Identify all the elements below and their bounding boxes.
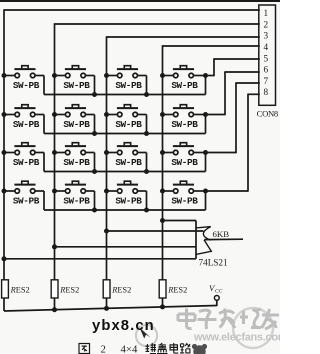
switch SW-PB S13 (row 4, col 1) <box>4 181 44 193</box>
svg-text:SW-PB: SW-PB <box>171 157 198 168</box>
wire row 1 col1 drop <box>43 76 45 95</box>
wire row 2 riser to row dot <box>205 115 207 134</box>
watermark text 电子发烧友 <box>178 309 195 329</box>
svg-text:2: 2 <box>101 344 106 354</box>
node: row 4 col 4 left-terminal junction <box>160 189 165 194</box>
wire row 2 to CON8 pin 6 <box>206 114 226 116</box>
resistor R3 RES2 body <box>103 280 110 298</box>
wire row 3 staircase horizontal <box>44 171 206 173</box>
wire column 2 to CON8 pin 2 <box>55 23 260 25</box>
resistor R4 bottom lead <box>162 298 164 307</box>
svg-text:RES2: RES2 <box>10 285 30 294</box>
resistor R1 bottom lead <box>3 298 5 311</box>
switch SW-PB S1 (row 1, col 1) <box>4 66 44 78</box>
switch SW-PB S11 (row 3, col 3) <box>107 143 147 155</box>
svg-text:SW-PB: SW-PB <box>115 157 142 168</box>
wire row 3 riser to row dot <box>205 153 207 172</box>
wire row 1 col2 drop <box>94 76 96 95</box>
resistor R2 RES2 body <box>51 280 58 298</box>
wire row 1 staircase horizontal <box>44 94 206 96</box>
wire column 4 to CON8 pin 4 <box>163 45 260 47</box>
node row 3 col2 staircase junction <box>92 169 97 174</box>
node row 1 right junction <box>203 73 208 78</box>
svg-text:SW-PB: SW-PB <box>63 157 90 168</box>
wire column 4 vertical <box>162 45 164 279</box>
node: row 2 col 4 left-terminal junction <box>160 112 165 117</box>
wire column 2 vertical <box>54 23 56 279</box>
node: row 1 col 4 left-terminal junction <box>160 73 165 78</box>
wire column 1 vertical <box>3 9 5 280</box>
switch SW-PB S10 (row 3, col 2) <box>55 143 95 155</box>
wire row 3 col2 drop <box>94 153 96 172</box>
svg-text:5: 5 <box>264 53 269 63</box>
switch SW-PB S8 (row 2, col 4) <box>163 105 206 117</box>
svg-text:SW-PB: SW-PB <box>115 196 142 207</box>
watermark stamp ring bottom-right <box>233 308 273 348</box>
svg-text:RES2: RES2 <box>167 285 187 294</box>
wire row 1 riser to row dot <box>205 76 207 95</box>
node: row 4 col 2 left-terminal junction <box>52 189 57 194</box>
node: row 3 col 3 left-terminal junction <box>104 150 109 155</box>
node column 3 gate tap junction <box>104 229 109 234</box>
Vcc terminal <box>214 296 219 301</box>
node: row 3 col 2 left-terminal junction <box>52 150 57 155</box>
svg-text:SW-PB: SW-PB <box>171 119 198 130</box>
svg-text:SW-PB: SW-PB <box>13 119 40 130</box>
svg-text:SW-PB: SW-PB <box>63 80 90 91</box>
wire column 3 to CON8 pin 3 <box>107 36 260 38</box>
switch SW-PB S14 (row 4, col 2) <box>55 181 95 193</box>
torn-edge break symbol <box>196 227 211 255</box>
node resistor R3 rail junction <box>104 306 109 311</box>
wire column 3 vertical <box>106 36 108 279</box>
wire Vcc lead <box>216 300 218 306</box>
node resistor R4 rail junction <box>160 304 165 309</box>
svg-text:4: 4 <box>264 42 269 52</box>
node: row 4 col 1 left-terminal junction <box>2 189 7 194</box>
node: row 3 col 4 left-terminal junction <box>160 150 165 155</box>
node row 3 col3 staircase junction <box>144 169 149 174</box>
svg-text:www.elecfans.com: www.elecfans.com <box>193 332 280 344</box>
svg-text:ybx8.cn: ybx8.cn <box>92 318 155 334</box>
node row 3 right junction <box>203 150 208 155</box>
switch SW-PB S16 (row 4, col 4) <box>163 181 206 193</box>
node row 1 col2 staircase junction <box>92 92 97 97</box>
svg-text:SW-PB: SW-PB <box>63 196 90 207</box>
switch SW-PB S5 (row 2, col 1) <box>4 105 44 117</box>
node: row 2 col 2 left-terminal junction <box>52 112 57 117</box>
svg-text:4×4: 4×4 <box>121 344 138 354</box>
node row 2 right junction <box>203 112 208 117</box>
wire row 4 col2 drop <box>94 191 96 210</box>
svg-text:SW-PB: SW-PB <box>171 80 198 91</box>
node: row 1 col 2 left-terminal junction <box>52 73 57 78</box>
wire row 4 to CON8 pin 8 <box>206 190 249 192</box>
wire 6KB net stub <box>204 238 243 240</box>
wire row 4 staircase horizontal <box>44 209 206 211</box>
svg-text:3: 3 <box>264 31 269 41</box>
svg-text:2: 2 <box>264 19 269 29</box>
resistor R4 RES2 body <box>159 280 166 298</box>
wire row 3 col1 drop <box>43 153 45 172</box>
node row 1 col3 staircase junction <box>144 92 149 97</box>
svg-text:CC: CC <box>215 288 223 294</box>
svg-text:RES2: RES2 <box>59 285 79 294</box>
svg-text:SW-PB: SW-PB <box>13 80 40 91</box>
node row 4 right junction <box>203 189 208 194</box>
node row 2 col2 staircase junction <box>92 131 97 136</box>
svg-text:CON8: CON8 <box>257 109 278 119</box>
svg-text:7: 7 <box>264 76 269 86</box>
wire row 1 col3 drop <box>146 76 148 95</box>
svg-text:74LS21: 74LS21 <box>199 257 229 267</box>
resistor R3 bottom lead <box>106 298 108 308</box>
top border line <box>0 0 280 2</box>
wire column 1 to 74LS21 input 4 <box>4 258 196 260</box>
switch SW-PB S6 (row 2, col 2) <box>55 105 95 117</box>
switch SW-PB S12 (row 3, col 4) <box>163 143 206 155</box>
wire row 3 col3 drop <box>146 153 148 172</box>
wire row 1 to CON8 pin 5 <box>206 75 215 77</box>
ybx8 logo ring with cursor <box>136 325 157 346</box>
node: row 2 col 3 left-terminal junction <box>104 112 109 117</box>
svg-text:8: 8 <box>264 87 269 97</box>
wire bottom rail (to Vcc) <box>4 306 217 312</box>
svg-text:1: 1 <box>264 8 269 18</box>
wire row 4 riser to row dot <box>205 191 207 210</box>
caption 图2 <box>79 344 90 354</box>
wire row 2 staircase horizontal <box>44 133 206 135</box>
node: row 2 col 1 left-terminal junction <box>2 112 7 117</box>
watermark panda logo <box>192 344 207 354</box>
wire column 4 to 74LS21 input 1 <box>163 220 197 222</box>
wire row 3 to CON8 pin 7 <box>206 152 237 154</box>
svg-text:SW-PB: SW-PB <box>13 196 40 207</box>
svg-text:6KB: 6KB <box>213 229 230 239</box>
node row 4 col3 staircase junction <box>144 208 149 213</box>
node: row 1 col 1 left-terminal junction <box>2 73 7 78</box>
svg-text:SW-PB: SW-PB <box>63 119 90 130</box>
node: row 3 col 1 left-terminal junction <box>2 150 7 155</box>
switch SW-PB S15 (row 4, col 3) <box>107 181 147 193</box>
wire row 2 col1 drop <box>43 115 45 134</box>
wire column 3 to 74LS21 input 2 <box>107 230 204 232</box>
node: row 1 col 3 left-terminal junction <box>104 73 109 78</box>
wire row 2 col3 drop <box>146 115 148 134</box>
wire column 1 to CON8 pin 1 <box>4 9 260 11</box>
svg-text:6: 6 <box>264 65 269 75</box>
wire row 4 col1 drop <box>43 191 45 210</box>
switch SW-PB S7 (row 2, col 3) <box>107 105 147 117</box>
svg-text:SW-PB: SW-PB <box>13 157 40 168</box>
svg-text:SW-PB: SW-PB <box>115 119 142 130</box>
switch SW-PB S2 (row 1, col 2) <box>55 66 95 78</box>
node column 2 gate tap junction <box>52 244 57 249</box>
wire row 2 col2 drop <box>94 115 96 134</box>
svg-text:SW-PB: SW-PB <box>171 196 198 207</box>
node resistor R2 rail junction <box>52 307 57 312</box>
caption 键盘电路 <box>146 343 157 354</box>
node: row 4 col 3 left-terminal junction <box>104 189 109 194</box>
svg-text:SW-PB: SW-PB <box>115 80 142 91</box>
wire row 4 col3 drop <box>146 191 148 210</box>
node row 2 col3 staircase junction <box>144 131 149 136</box>
svg-text:RES2: RES2 <box>111 285 131 294</box>
wire column 2 to 74LS21 input 3 <box>55 246 197 248</box>
switch SW-PB S9 (row 3, col 1) <box>4 143 44 155</box>
resistor R1 RES2 body <box>2 280 9 298</box>
connector CON8 body <box>259 5 276 105</box>
74LS21 body right edge <box>195 221 197 259</box>
switch SW-PB S3 (row 1, col 3) <box>107 66 147 78</box>
node column 1 gate tap junction <box>2 256 7 261</box>
node column 4 gate tap junction <box>160 218 165 223</box>
switch SW-PB S4 (row 1, col 4) <box>163 66 206 78</box>
resistor R2 bottom lead <box>54 298 56 310</box>
node row 4 col2 staircase junction <box>92 208 97 213</box>
